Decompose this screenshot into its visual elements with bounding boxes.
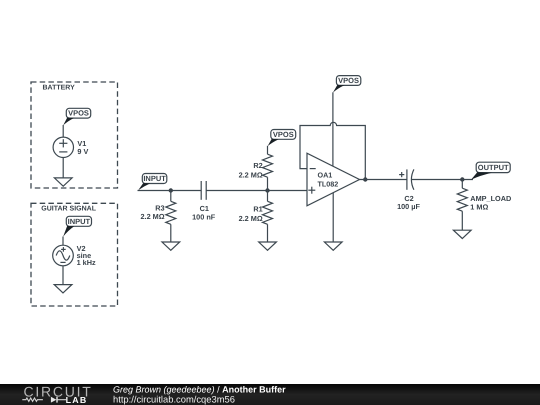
net flag OUTPUT [471, 162, 510, 180]
GUITAR SIGNAL enclosure box [31, 203, 118, 306]
op-amp OA1 TL082 [307, 153, 360, 206]
svg-text:LAB: LAB [66, 395, 88, 405]
svg-text:OA1: OA1 [318, 171, 333, 180]
svg-text:VPOS: VPOS [273, 130, 294, 139]
capacitor C2 (polarized) [397, 169, 420, 211]
svg-text:GUITAR SIGNAL: GUITAR SIGNAL [41, 206, 96, 213]
svg-text:R2: R2 [253, 161, 262, 170]
ground (R3) [162, 242, 180, 250]
footer bar [0, 384, 540, 405]
net flag VPOS (op-amp) [333, 76, 361, 93]
net flag INPUT (main) [138, 174, 167, 191]
svg-text:BATTERY: BATTERY [43, 84, 76, 91]
ground (guitar) [54, 285, 72, 293]
resistor AMP_LOAD [457, 180, 511, 231]
svg-text:100 nF: 100 nF [192, 212, 216, 221]
wire VPOS flag to V1 top [62, 125, 64, 137]
svg-text:OUTPUT: OUTPUT [478, 163, 509, 172]
svg-text:9 V: 9 V [77, 147, 88, 156]
BATTERY enclosure box [31, 82, 118, 188]
wire op-amp output to C2 [360, 179, 407, 181]
ground (R1) [259, 242, 277, 250]
ground (battery) [54, 178, 72, 186]
svg-text:INPUT: INPUT [143, 174, 166, 183]
CircuitLab logo: resistor zigzag [22, 398, 43, 401]
wire VPOS to op-amp V+ pin [332, 92, 334, 166]
svg-text:R1: R1 [253, 205, 262, 214]
wire op-amp V- pin to ground [332, 193, 334, 242]
svg-text:2.2 MΩ: 2.2 MΩ [140, 212, 164, 221]
wire C2 to output node [412, 179, 473, 181]
wire V2 bottom to ground [62, 266, 64, 285]
ground (op-amp) [324, 242, 342, 250]
svg-text:100 µF: 100 µF [397, 202, 420, 211]
resistor R3 [140, 191, 175, 243]
svg-text:VPOS: VPOS [338, 76, 359, 85]
svg-text:2.2 MΩ: 2.2 MΩ [239, 171, 263, 180]
node junction at R1/R2 [265, 188, 269, 192]
wire V1 bottom to ground [62, 158, 64, 178]
resistor R1 [239, 191, 273, 243]
svg-text:VPOS: VPOS [68, 109, 89, 118]
svg-text:2.2 MΩ: 2.2 MΩ [239, 214, 263, 223]
svg-text:1 MΩ: 1 MΩ [470, 202, 488, 211]
net flag INPUT (guitar) [63, 216, 91, 236]
node junction at AMP_LOAD [460, 177, 464, 181]
sine source V2 [53, 244, 96, 267]
node junction at R3 [169, 188, 173, 192]
voltage source V1 [53, 137, 88, 157]
wire INPUT flag to V2 top [62, 237, 64, 246]
net flag VPOS (battery) [63, 108, 91, 125]
wire input node to C1 [138, 190, 202, 192]
svg-text:INPUT: INPUT [68, 217, 91, 226]
node junction at op-amp output [363, 177, 367, 181]
svg-text:http://circuitlab.com/cqe3m56: http://circuitlab.com/cqe3m56 [113, 394, 235, 405]
ground (AMP_LOAD) [453, 230, 471, 238]
capacitor C1 [192, 181, 216, 221]
wire C1 to op-amp + input [206, 190, 307, 192]
CircuitLab logo: diode [51, 397, 66, 403]
resistor R2 [239, 146, 273, 191]
feedback wire (output to inverting input) with hop [300, 122, 365, 179]
svg-text:TL082: TL082 [318, 180, 339, 189]
net flag VPOS (R2) [268, 130, 296, 147]
svg-text:1 kHz: 1 kHz [77, 258, 96, 267]
